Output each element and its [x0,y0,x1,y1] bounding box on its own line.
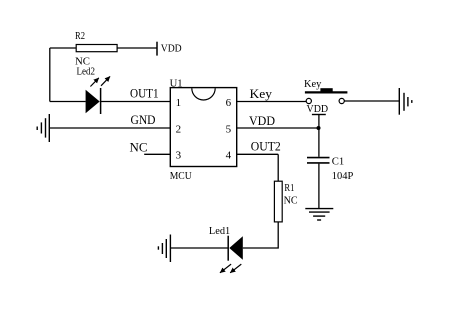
Led2 arrow 2 [101,76,110,85]
svg-text:R2: R2 [75,30,85,42]
svg-text:GND: GND [131,112,156,127]
power VDD (top) [156,42,158,56]
switch Key [305,88,348,103]
wire pin 4 horizontal [237,153,279,155]
svg-text:C1: C1 [332,155,345,167]
wire R2 right to VDD [117,47,157,49]
resistor R1 [274,181,282,222]
resistor R2 [76,45,117,52]
svg-text:NC: NC [130,139,148,154]
capacitor C1 [307,158,330,163]
svg-text:5: 5 [226,123,232,135]
wire switch to ground [344,100,399,102]
junction VDD node [317,126,321,130]
ground (C1) [305,209,333,220]
svg-text:R1: R1 [284,183,294,194]
wire VDD to C1 [318,128,320,157]
wire Led2 cathode to pin 1 [101,101,171,103]
wire Led2 anode [50,101,86,103]
LED Led1 [228,236,243,261]
svg-text:VDD: VDD [249,113,275,128]
wire pin 6 to switch [237,101,307,103]
svg-text:4: 4 [226,150,232,162]
svg-text:3: 3 [176,150,182,162]
ground (GND pin) [37,114,49,142]
svg-text:VDD: VDD [161,44,182,55]
wire VDD supply down [318,115,320,129]
svg-text:NC: NC [284,196,298,207]
Led2 arrow 1 [90,78,98,87]
IC U1 notch [192,88,215,100]
svg-text:OUT2: OUT2 [251,139,281,154]
ground (Led1) [158,235,170,263]
svg-text:VDD: VDD [307,104,329,115]
svg-text:MCU: MCU [170,170,192,182]
svg-text:Led1: Led1 [209,226,230,237]
wire C1 to ground [318,164,320,209]
wire Led1 cathode to ground [170,247,228,249]
svg-text:104P: 104P [332,170,354,182]
svg-text:2: 2 [176,123,182,135]
wire R2 to Led2 vertical [49,48,51,102]
svg-text:1: 1 [176,97,182,109]
LED Led2 [86,88,101,114]
svg-text:Led2: Led2 [77,66,96,77]
wire pin 4 down to R1 [277,154,279,181]
svg-text:OUT1: OUT1 [130,86,159,101]
wire GND to pin 2 [49,127,170,129]
wire R2 left [50,47,76,49]
Led1 arrow 1 [230,264,241,273]
IC U1 body [170,88,236,167]
ground (switch, right) [399,88,412,115]
svg-text:Key: Key [304,78,322,90]
wire R1 to Led1 corner [243,222,278,248]
svg-text:Key: Key [250,86,273,101]
power VDD (supply bar) [312,114,326,116]
wire pin 3 stub [144,153,170,155]
svg-text:6: 6 [226,97,232,109]
wire pin 5 VDD [237,127,319,129]
Led1 arrow 2 [220,264,231,273]
